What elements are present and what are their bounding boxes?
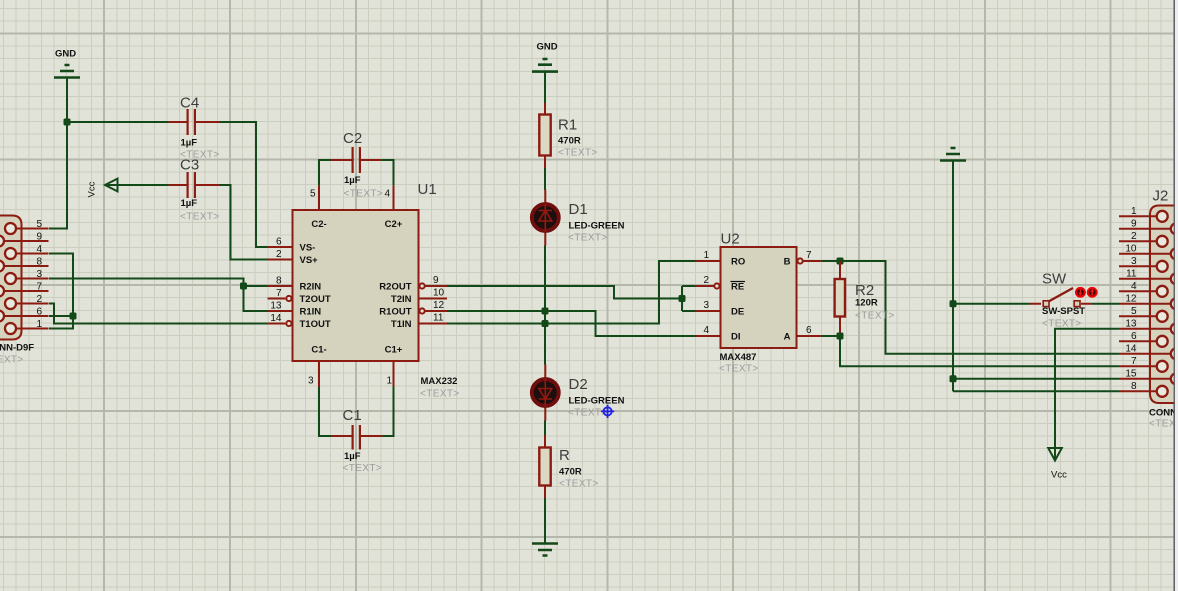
svg-text:12: 12	[433, 300, 445, 311]
wire U2 B to R2 and J2 pin 14	[822, 261, 1119, 354]
wire J1 pin 3 to U1 R2IN and R1IN	[49, 279, 268, 312]
connector J1 CONN-D9F	[0, 216, 49, 366]
svg-text:3: 3	[36, 269, 42, 280]
svg-text:7: 7	[1131, 356, 1137, 367]
wire C3 to U1 VS+ pin 2	[220, 185, 268, 260]
capacitor C4	[169, 95, 220, 161]
svg-text:U1: U1	[418, 181, 437, 198]
svg-text:<TEXT>: <TEXT>	[559, 479, 599, 490]
svg-text:R1: R1	[558, 117, 577, 134]
svg-text:10: 10	[433, 288, 445, 299]
junction (545,323.5)	[542, 320, 549, 327]
LED D1	[532, 190, 625, 246]
IC U2 MAX487	[696, 231, 823, 375]
svg-text:C1-: C1-	[311, 345, 326, 356]
svg-text:3: 3	[308, 376, 314, 387]
power flag Vcc (left)	[87, 179, 118, 198]
svg-text:120R: 120R	[855, 298, 878, 309]
svg-text:13: 13	[270, 301, 282, 312]
wire SW to J2 pin 12	[1092, 303, 1119, 305]
svg-text:<TEXT>: <TEXT>	[343, 463, 383, 474]
svg-text:4: 4	[1131, 281, 1137, 292]
svg-text:7: 7	[36, 282, 42, 293]
interactive toggle buttons	[1076, 288, 1097, 297]
power flag Vcc (bottom right)	[1048, 448, 1067, 481]
capacitor C2	[331, 130, 383, 200]
junction (840,336)	[837, 333, 844, 340]
svg-text:GND: GND	[537, 42, 558, 53]
capacitor C3	[169, 157, 220, 223]
origin marker	[601, 405, 614, 418]
svg-text:R2OUT: R2OUT	[379, 282, 411, 293]
svg-text:Vcc: Vcc	[87, 181, 98, 197]
wire D2 to R	[544, 421, 546, 436]
svg-text:R2: R2	[855, 282, 874, 299]
svg-text:J2: J2	[1153, 188, 1169, 205]
svg-text:3: 3	[1131, 256, 1137, 267]
wire C4 to U1 VS- pin 6	[220, 122, 268, 247]
svg-text:8: 8	[276, 276, 282, 287]
switch SW SW-SPST	[1030, 271, 1092, 330]
svg-text:VS+: VS+	[300, 255, 319, 266]
junction (545,311)	[542, 308, 549, 315]
svg-text:4: 4	[385, 189, 391, 200]
wire D1 to D2	[544, 246, 546, 365]
svg-text:1: 1	[36, 319, 42, 330]
svg-text:1µF: 1µF	[181, 198, 198, 209]
svg-text:14: 14	[1125, 343, 1137, 354]
svg-text:U2: U2	[721, 231, 740, 248]
LED D2	[532, 365, 625, 421]
svg-text:2: 2	[276, 249, 282, 260]
ground symbol (below R)	[532, 544, 558, 556]
wire U1 pin 3 to C1	[319, 387, 332, 436]
svg-text:<TEXT>: <TEXT>	[558, 148, 598, 159]
svg-text:5: 5	[36, 219, 42, 230]
ground symbol (top left)	[54, 49, 80, 78]
svg-text:9: 9	[1131, 218, 1137, 229]
svg-text:B: B	[784, 257, 791, 268]
svg-text:SW: SW	[1042, 271, 1067, 288]
wire U1 R2OUT to U2 RE,DE	[447, 286, 696, 311]
svg-text:1: 1	[387, 376, 393, 387]
wire J1 pins 4,6,1 tie	[49, 254, 73, 329]
svg-text:1µF: 1µF	[181, 138, 198, 149]
wire GND to J2 pins 15,8	[953, 161, 1119, 391]
svg-text:SW-SPST: SW-SPST	[1042, 306, 1085, 317]
svg-text:14: 14	[270, 313, 282, 324]
svg-text:R1OUT: R1OUT	[379, 307, 411, 318]
junction (953,378.8)	[950, 375, 957, 382]
svg-text:DE: DE	[731, 307, 744, 318]
wire C1 to U1 pin 1	[383, 387, 394, 437]
svg-text:C1+: C1+	[385, 345, 403, 356]
svg-text:1: 1	[703, 250, 709, 261]
svg-text:15: 15	[1125, 368, 1137, 379]
svg-text:LED-GREEN: LED-GREEN	[569, 221, 625, 232]
svg-text:6: 6	[36, 307, 42, 318]
svg-text:5: 5	[1131, 306, 1137, 317]
junction (243.5,286)	[240, 283, 247, 290]
svg-text:<TEXT>: <TEXT>	[568, 408, 608, 419]
svg-text:5: 5	[310, 189, 316, 200]
svg-text:D2: D2	[569, 376, 588, 393]
capacitor C1	[332, 407, 383, 474]
wire GND to junction A	[66, 78, 68, 122]
svg-text:8: 8	[1131, 381, 1137, 392]
connector J2	[1119, 188, 1178, 430]
resistor R2	[835, 261, 895, 336]
svg-text:CONN-D9F: CONN-D9F	[0, 343, 34, 354]
wire R1 to D1	[544, 168, 546, 190]
junction (682,298.5)	[679, 295, 686, 302]
svg-text:RO: RO	[731, 257, 745, 268]
svg-text:6: 6	[276, 237, 282, 248]
wire U1 T1IN to U2 RO	[447, 261, 696, 324]
svg-text:470R: 470R	[558, 136, 581, 147]
svg-text:T2IN: T2IN	[391, 294, 412, 305]
IC U1 MAX232	[268, 181, 460, 400]
svg-text:R2IN: R2IN	[300, 282, 322, 293]
svg-text:C1: C1	[343, 407, 362, 424]
svg-text:1µF: 1µF	[344, 175, 361, 186]
wire Vcc to C3	[106, 184, 169, 186]
svg-text:<TEXT>: <TEXT>	[0, 355, 24, 366]
svg-text:7: 7	[276, 288, 282, 299]
svg-text:470R: 470R	[559, 467, 582, 478]
svg-text:MAX232: MAX232	[421, 376, 458, 387]
svg-text:3: 3	[703, 300, 709, 311]
window border (right edge)	[1174, 0, 1178, 591]
svg-text:Vcc: Vcc	[1051, 470, 1067, 481]
svg-text:1µF: 1µF	[344, 451, 361, 462]
svg-text:7: 7	[806, 250, 812, 261]
svg-text:R1IN: R1IN	[300, 307, 322, 318]
svg-text:T2OUT: T2OUT	[300, 294, 331, 305]
wire U1 R1OUT to U2 DI	[447, 311, 696, 336]
svg-text:<TEXT>: <TEXT>	[568, 233, 608, 244]
wire J2 pin 13 to Vcc	[1055, 329, 1119, 459]
svg-text:DI: DI	[731, 332, 741, 343]
svg-text:C2-: C2-	[311, 219, 326, 230]
svg-text:6: 6	[806, 325, 812, 336]
svg-text:A: A	[784, 332, 791, 343]
svg-text:9: 9	[433, 275, 439, 286]
ground symbol (top right)	[940, 148, 966, 161]
svg-text:12: 12	[1125, 293, 1137, 304]
wire junction A to J1 pin 5	[49, 122, 67, 229]
svg-text:8: 8	[36, 257, 42, 268]
svg-text:<TEXT>: <TEXT>	[180, 212, 220, 223]
svg-text:1: 1	[1131, 206, 1137, 217]
svg-text:9: 9	[36, 232, 42, 243]
svg-text:MAX487: MAX487	[720, 352, 757, 363]
ground symbol (above R1)	[532, 42, 558, 72]
svg-text:RE: RE	[731, 282, 744, 293]
svg-text:2: 2	[703, 275, 709, 286]
svg-text:C3: C3	[180, 157, 199, 174]
svg-text:4: 4	[703, 325, 709, 336]
svg-text:13: 13	[1125, 318, 1137, 329]
resistor R	[539, 435, 598, 498]
wire GND to R1	[544, 72, 546, 103]
svg-text:T1OUT: T1OUT	[300, 319, 331, 330]
svg-text:GND: GND	[55, 49, 76, 60]
svg-text:10: 10	[1125, 243, 1137, 254]
svg-text:<TEXT>: <TEXT>	[719, 364, 759, 375]
svg-text:<TEXT>: <TEXT>	[420, 389, 460, 400]
wire C2 to U1 pin 4	[382, 160, 394, 185]
junction (953,303.8)	[950, 300, 957, 307]
wire junction A to C4	[67, 121, 169, 123]
svg-text:2: 2	[1131, 231, 1137, 242]
svg-text:2: 2	[36, 294, 42, 305]
svg-text:D1: D1	[569, 201, 588, 218]
svg-text:T1IN: T1IN	[391, 319, 412, 330]
svg-text:C4: C4	[180, 95, 199, 112]
wire GND to SW	[953, 303, 1030, 305]
svg-text:R: R	[559, 447, 570, 464]
wire R to GND	[544, 498, 546, 544]
wire U2 A to J2 pin 7	[822, 336, 1119, 366]
svg-text:LED-GREEN: LED-GREEN	[569, 396, 625, 407]
svg-text:6: 6	[1131, 331, 1137, 342]
wire U1 pin 5 to C2	[319, 160, 331, 185]
svg-text:<TEXT>: <TEXT>	[344, 189, 384, 200]
svg-text:<TEXT>: <TEXT>	[855, 311, 895, 322]
svg-text:VS-: VS-	[300, 243, 316, 254]
svg-text:C2: C2	[343, 130, 362, 147]
resistor R1	[539, 103, 597, 168]
svg-text:11: 11	[433, 313, 444, 324]
svg-text:C2+: C2+	[385, 219, 403, 230]
svg-text:11: 11	[1126, 268, 1137, 279]
junction (73,316)	[70, 313, 77, 320]
junction A (67,122)	[64, 119, 71, 126]
wire J1 pin 2 to U1 T1OUT	[49, 304, 268, 324]
junction (840,261)	[837, 258, 844, 265]
svg-text:4: 4	[36, 244, 42, 255]
